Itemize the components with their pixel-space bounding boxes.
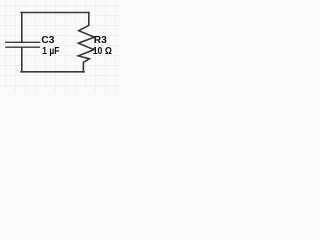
svg-text:1 µF: 1 µF (42, 46, 59, 57)
svg-text:R3: R3 (94, 35, 107, 46)
svg-text:10 Ω: 10 Ω (93, 46, 112, 57)
svg-text:C3: C3 (41, 35, 54, 46)
